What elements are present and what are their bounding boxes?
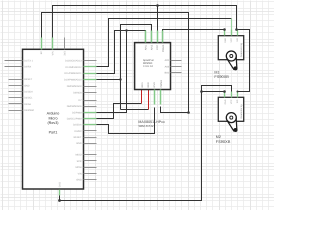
svg-text:5V: 5V bbox=[40, 51, 43, 54]
svg-text:D4/A6: D4/A6 bbox=[24, 103, 31, 106]
svg-text:PWMB: PWMB bbox=[160, 80, 163, 88]
svg-text:RESET: RESET bbox=[24, 78, 33, 81]
svg-text:BIN1: BIN1 bbox=[141, 82, 144, 88]
svg-text:3V3: 3V3 bbox=[64, 51, 67, 56]
svg-text:GND: GND bbox=[58, 182, 61, 188]
svg-text:FS90XB: FS90XB bbox=[216, 139, 231, 144]
svg-text:D0/RX: D0/RX bbox=[24, 66, 31, 69]
svg-text:D1/TX 1: D1/TX 1 bbox=[24, 60, 33, 63]
svg-text:GND: GND bbox=[76, 179, 82, 182]
svg-text:AIN1: AIN1 bbox=[145, 44, 148, 50]
svg-text:SCK: SCK bbox=[77, 160, 82, 163]
svg-text:(Rev3): (Rev3) bbox=[47, 121, 58, 125]
svg-text:D5/PWM: D5/PWM bbox=[72, 111, 82, 114]
svg-text:D9/PWM/AD9: D9/PWM/AD9 bbox=[67, 85, 83, 88]
svg-text:0 Vcc 1d: 0 Vcc 1d bbox=[143, 65, 153, 68]
svg-text:GND: GND bbox=[224, 99, 227, 104]
svg-text:Micro: Micro bbox=[48, 116, 57, 120]
svg-text:GND: GND bbox=[153, 82, 156, 88]
svg-text:D13/SCK/AD13: D13/SCK/AD13 bbox=[65, 60, 82, 63]
svg-text:VCC: VCC bbox=[230, 99, 233, 104]
svg-text:D8/AD8: D8/AD8 bbox=[73, 92, 82, 95]
svg-text:VCC: VCC bbox=[230, 37, 233, 42]
svg-text:D5/PWM: D5/PWM bbox=[24, 109, 34, 112]
svg-text:SIG: SIG bbox=[236, 38, 239, 42]
svg-text:D3/SCL: D3/SCL bbox=[24, 97, 33, 100]
svg-text:D0/RX: D0/RX bbox=[75, 130, 82, 133]
svg-text:MISO: MISO bbox=[75, 154, 81, 157]
svg-text:VIN: VIN bbox=[52, 51, 55, 55]
svg-text:Gearmotor 9g: Gearmotor 9g bbox=[240, 42, 243, 57]
svg-text:AO1: AO1 bbox=[165, 59, 170, 62]
svg-text:BO1: BO1 bbox=[165, 72, 170, 75]
svg-text:MOSI: MOSI bbox=[75, 166, 81, 169]
svg-text:SIG: SIG bbox=[236, 99, 239, 103]
svg-text:D3/SCL/PWM: D3/SCL/PWM bbox=[67, 118, 82, 121]
svg-text:GND: GND bbox=[224, 37, 227, 42]
svg-text:VIN: VIN bbox=[78, 172, 82, 175]
svg-text:D10/PWM/AD10: D10/PWM/AD10 bbox=[64, 79, 82, 82]
svg-text:AIN2: AIN2 bbox=[150, 44, 153, 50]
svg-text:GND: GND bbox=[76, 142, 82, 145]
svg-text:RESET: RESET bbox=[74, 136, 83, 139]
svg-text:Arduino: Arduino bbox=[47, 112, 60, 116]
svg-text:D6/PWM/AD6: D6/PWM/AD6 bbox=[67, 105, 83, 108]
svg-text:Part1: Part1 bbox=[49, 130, 58, 134]
svg-text:Gearmotor 9g: Gearmotor 9g bbox=[240, 104, 243, 119]
svg-text:BIN2: BIN2 bbox=[147, 82, 150, 88]
svg-text:AO2: AO2 bbox=[165, 65, 170, 68]
svg-text:D12/MISO/A12: D12/MISO/A12 bbox=[66, 66, 83, 69]
svg-text:FS90XB: FS90XB bbox=[214, 74, 229, 79]
svg-text:D11/PWM/AD11: D11/PWM/AD11 bbox=[64, 72, 82, 75]
svg-text:VCC: VCC bbox=[156, 45, 159, 50]
svg-text:D2/SDA: D2/SDA bbox=[73, 124, 82, 127]
svg-text:D2/SDA: D2/SDA bbox=[24, 91, 33, 94]
svg-text:GND: GND bbox=[24, 84, 30, 87]
svg-text:SEM 41742: SEM 41742 bbox=[138, 124, 153, 128]
svg-text:PWMA: PWMA bbox=[162, 44, 165, 52]
